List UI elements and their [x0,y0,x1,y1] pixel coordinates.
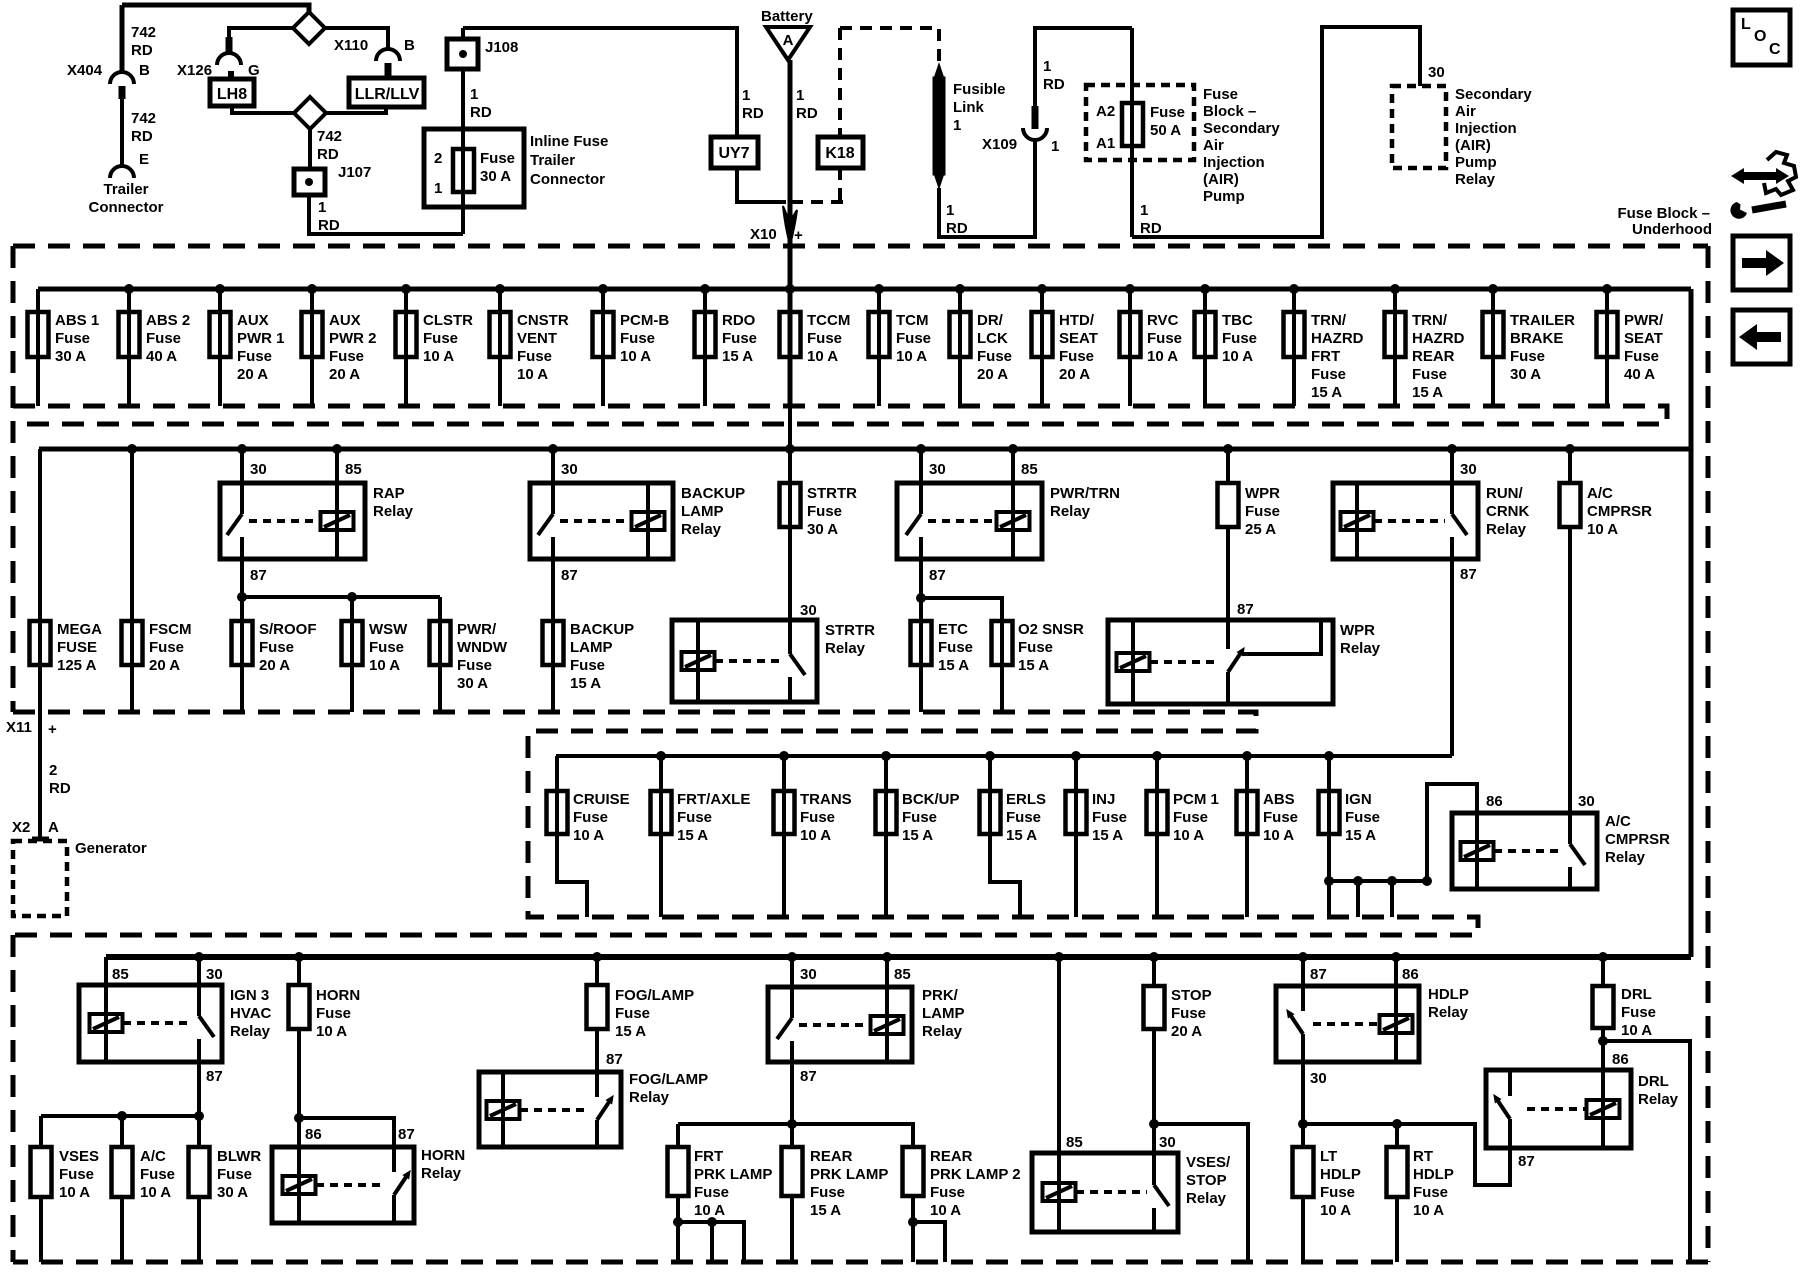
connector B [376,49,400,61]
svg-text:PWR/: PWR/ [1624,312,1664,329]
wire through inline fuse [461,69,465,234]
svg-text:A/C: A/C [1605,813,1631,830]
svg-text:87: 87 [1237,601,1254,618]
wire X109 up and over to AIR fuse [1035,28,1132,108]
svg-text:Fuse: Fuse [1311,366,1346,383]
svg-text:Fuse: Fuse [480,150,515,167]
svg-text:Relay: Relay [681,521,722,538]
icon arrow left box [1733,310,1790,364]
svg-text:(AIR): (AIR) [1203,171,1239,188]
wire top-left horizontal [122,5,309,13]
svg-text:Fuse: Fuse [1222,330,1257,347]
svg-text:Relay: Relay [1186,1190,1227,1207]
svg-text:Underhood: Underhood [1632,221,1712,238]
fuse BCK/UP [884,756,888,834]
wire STOP to VSES/STOP relay [1152,1029,1156,1153]
splice X110 diamond [293,12,325,44]
svg-text:STOP: STOP [1186,1172,1227,1189]
wire REAR PRK 2 outputs [911,1196,915,1262]
wire X110 to B connector [325,28,388,49]
svg-text:MEGA: MEGA [57,621,102,638]
fuse FRT/AXLE [659,756,663,834]
svg-text:BCK/UP: BCK/UP [902,791,960,808]
wire VSES/STOP 85 drop [1057,957,1061,1153]
svg-text:87: 87 [1518,1153,1535,1170]
svg-text:HDLP: HDLP [1428,986,1469,1003]
relay PWR/TRN [919,449,923,483]
svg-text:Fuse Block –: Fuse Block – [1617,205,1710,222]
svg-text:15 A: 15 A [1412,384,1443,401]
svg-text:40 A: 40 A [1624,366,1655,383]
svg-text:Block –: Block – [1203,103,1256,120]
svg-text:10 A: 10 A [1222,348,1253,365]
box fuse block secondary AIR dashed [1086,85,1194,160]
svg-text:PRK LAMP 2: PRK LAMP 2 [930,1166,1021,1183]
svg-text:UY7: UY7 [718,145,749,162]
wire HDLP 30 rail [1301,1062,1305,1147]
svg-text:X404: X404 [67,62,103,79]
wire INJ output [1074,834,1078,917]
fusible link 1 [933,62,945,80]
svg-text:Fuse: Fuse [1412,366,1447,383]
svg-text:PWR 1: PWR 1 [237,330,285,347]
wire ERLS output dogleg [990,834,1020,917]
svg-text:B: B [404,37,415,54]
relay HORN [272,1147,414,1223]
svg-text:30: 30 [800,602,817,619]
wire X404 to E [120,99,124,166]
svg-text:LH8: LH8 [217,86,247,103]
svg-text:30 A: 30 A [480,168,511,185]
wire IGN output manifold [1327,834,1331,917]
svg-text:Fuse: Fuse [217,1166,252,1183]
fuse LT HDLP [1293,1147,1314,1197]
svg-text:BLWR: BLWR [217,1148,261,1165]
fuse RT HDLP [1395,1124,1399,1147]
wire FRT PRK outputs [676,1196,680,1262]
svg-text:1: 1 [1051,138,1059,155]
svg-text:Fuse: Fuse [1173,809,1208,826]
svg-text:Fuse: Fuse [620,330,655,347]
svg-text:TRANS: TRANS [800,791,852,808]
svg-text:Relay: Relay [1486,521,1527,538]
svg-text:DRL: DRL [1621,986,1652,1003]
svg-text:PRK LAMP: PRK LAMP [810,1166,888,1183]
fuse VSES [39,1116,43,1147]
svg-text:87: 87 [250,567,267,584]
svg-text:87: 87 [929,567,946,584]
fuse O2 SNSR [1000,621,1004,712]
svg-text:Trailer: Trailer [103,181,148,198]
svg-text:FRT/AXLE: FRT/AXLE [677,791,750,808]
relay PRK/LAMP [790,957,794,987]
svg-text:ABS: ABS [1263,791,1295,808]
svg-text:RD: RD [470,104,492,121]
wire FRT/AXLE output [659,834,663,917]
svg-text:Relay: Relay [230,1023,271,1040]
svg-text:87: 87 [398,1126,415,1143]
svg-text:85: 85 [112,966,129,983]
svg-text:S/ROOF: S/ROOF [259,621,317,638]
svg-text:HTD/: HTD/ [1059,312,1095,329]
wire PRK 87 rail [790,1062,794,1147]
svg-text:A/C: A/C [1587,485,1613,502]
svg-text:40 A: 40 A [146,348,177,365]
svg-text:Fuse: Fuse [146,330,181,347]
svg-text:Air: Air [1455,103,1476,120]
fuse Inline 30A [453,149,474,192]
svg-text:25 A: 25 A [1245,521,1276,538]
svg-text:30 A: 30 A [1510,366,1541,383]
svg-text:BACKUP: BACKUP [681,485,745,502]
svg-text:WNDW: WNDW [457,639,508,656]
svg-text:30: 30 [561,461,578,478]
fuse AUX PWR 1 [218,289,222,406]
fuse PCM 1 [1155,756,1159,834]
svg-text:30 A: 30 A [807,521,838,538]
svg-text:RUN/: RUN/ [1486,485,1523,502]
svg-text:X10: X10 [750,226,777,243]
svg-text:WPR: WPR [1245,485,1280,502]
svg-text:Pump: Pump [1455,154,1497,171]
svg-text:X11: X11 [6,719,32,736]
icon LOC box [1733,10,1790,65]
fuse PWR/WNDW [438,597,442,712]
svg-text:Relay: Relay [1455,171,1496,188]
svg-text:Fuse: Fuse [1413,1184,1448,1201]
svg-text:10 A: 10 A [1147,348,1178,365]
svg-text:30: 30 [800,966,817,983]
box inline fuse trailer connector [424,129,524,207]
svg-text:Fuse: Fuse [423,330,458,347]
svg-text:30 A: 30 A [55,348,86,365]
svg-text:DRL: DRL [1638,1073,1669,1090]
svg-text:Relay: Relay [373,503,414,520]
fuse BACKUP LAMP [551,621,555,712]
svg-text:10 A: 10 A [930,1202,961,1219]
svg-text:SEAT: SEAT [1624,330,1663,347]
fuse PCM-B [601,289,605,406]
svg-text:PWR 2: PWR 2 [329,330,377,347]
svg-text:Connector: Connector [89,199,164,216]
box LLR/LLV [349,78,424,107]
fuse RVC [1128,289,1132,406]
svg-text:1: 1 [1140,202,1148,219]
svg-text:86: 86 [1612,1051,1629,1068]
svg-text:E: E [139,151,149,168]
svg-text:50 A: 50 A [1150,122,1181,139]
svg-text:X126: X126 [177,62,212,79]
svg-text:30: 30 [1460,461,1477,478]
svg-text:HAZRD: HAZRD [1412,330,1465,347]
svg-text:Relay: Relay [1050,503,1091,520]
svg-text:2: 2 [434,150,442,167]
fuse ERLS [988,756,992,834]
svg-text:PRK/: PRK/ [922,987,959,1004]
wire through AIR fuse block [1130,28,1134,237]
svg-text:Secondary: Secondary [1203,120,1280,137]
relay HDLP [1301,957,1305,986]
fuse REAR PRK LAMP [790,1124,794,1147]
svg-text:FSCM: FSCM [149,621,192,638]
svg-text:RD: RD [946,220,968,237]
svg-text:FUSE: FUSE [57,639,97,656]
svg-text:G: G [248,62,260,79]
svg-text:ETC: ETC [938,621,968,638]
fuse STOP [1152,957,1156,986]
svg-text:10 A: 10 A [1320,1202,1351,1219]
svg-text:10 A: 10 A [1621,1022,1652,1039]
svg-text:85: 85 [894,966,911,983]
svg-text:1: 1 [953,117,961,134]
svg-text:Fuse: Fuse [149,639,184,656]
svg-text:LLR/LLV: LLR/LLV [355,86,420,103]
svg-text:1: 1 [434,180,442,197]
fuse PWR/SEAT [1605,289,1609,406]
wire A/C relay 86 jog [1427,784,1477,881]
svg-text:REAR: REAR [1412,348,1455,365]
fuse DR/LCK [958,289,962,406]
svg-text:RD: RD [1043,76,1065,93]
svg-text:REAR: REAR [930,1148,973,1165]
fuse HTD/SEAT [1040,289,1044,406]
svg-text:RDO: RDO [722,312,756,329]
svg-text:20 A: 20 A [1059,366,1090,383]
svg-text:TRAILER: TRAILER [1510,312,1575,329]
svg-text:10 A: 10 A [1173,827,1204,844]
svg-text:PWR/: PWR/ [457,621,497,638]
svg-text:10 A: 10 A [316,1023,347,1040]
svg-text:+: + [794,227,803,244]
svg-text:RT: RT [1413,1148,1433,1165]
fuse TRN/HAZRD FRT [1292,289,1296,406]
svg-text:ERLS: ERLS [1006,791,1046,808]
wire HORN fuse to relay [297,1029,301,1147]
svg-text:TRN/: TRN/ [1412,312,1448,329]
svg-text:15 A: 15 A [1311,384,1342,401]
relay VSES/STOP [1032,1153,1178,1232]
relay RAP [240,449,244,483]
divider section2 and inner box dashed [13,712,1478,935]
fuse block underhood dashed border [13,244,1708,249]
svg-text:ABS 2: ABS 2 [146,312,190,329]
svg-text:15 A: 15 A [677,827,708,844]
svg-text:K18: K18 [825,145,854,162]
fuse ETC [919,621,923,712]
svg-text:HDLP: HDLP [1413,1166,1454,1183]
svg-text:Fuse: Fuse [1150,104,1185,121]
svg-text:AUX: AUX [329,312,361,329]
fuse TCCM [788,312,793,406]
wire PWR/TRN 87 rail [919,559,923,621]
fuse HORN [297,957,301,985]
svg-text:IGN 3: IGN 3 [230,987,269,1004]
svg-text:Fuse: Fuse [1624,348,1659,365]
fuse CNSTR VENT [498,289,502,406]
svg-text:Fuse: Fuse [369,639,404,656]
svg-text:Fuse: Fuse [1263,809,1298,826]
svg-text:FOG/LAMP: FOG/LAMP [615,987,694,1004]
svg-text:VSES: VSES [59,1148,99,1165]
svg-text:CMPRSR: CMPRSR [1587,503,1652,520]
svg-text:Secondary: Secondary [1455,86,1532,103]
svg-text:Relay: Relay [1340,640,1381,657]
svg-text:20 A: 20 A [1171,1023,1202,1040]
svg-text:RD: RD [742,105,764,122]
svg-text:RD: RD [131,128,153,145]
svg-text:PCM-B: PCM-B [620,312,669,329]
svg-text:Relay: Relay [1605,849,1646,866]
fuse A/C CMPRSR [1568,449,1572,483]
svg-text:HAZRD: HAZRD [1311,330,1364,347]
relay RUN/CRNK [1450,449,1454,483]
svg-text:CNSTR: CNSTR [517,312,569,329]
svg-text:Fuse: Fuse [930,1184,965,1201]
svg-text:A2: A2 [1096,103,1115,120]
svg-text:Fuse: Fuse [615,1005,650,1022]
battery triangle A [766,27,810,60]
fuse TRANS [782,756,786,834]
svg-text:L: L [1741,16,1751,33]
svg-text:LAMP: LAMP [681,503,724,520]
wire DRL fuse outputs [1601,1028,1605,1070]
svg-text:15 A: 15 A [902,827,933,844]
svg-text:30: 30 [929,461,946,478]
svg-text:20 A: 20 A [977,366,1008,383]
svg-text:Relay: Relay [421,1165,462,1182]
svg-text:TCCM: TCCM [807,312,850,329]
svg-text:A: A [783,32,794,49]
fuse A/C small [120,1116,124,1147]
svg-text:30: 30 [206,966,223,983]
wire battery feed [788,60,793,312]
svg-text:Fuse: Fuse [1510,348,1545,365]
box generator dashed [13,841,67,916]
svg-text:Injection: Injection [1455,120,1517,137]
wire LLR/LLV to splice [325,107,386,113]
svg-text:Fuse: Fuse [694,1184,729,1201]
bus3 wire [556,754,1452,758]
svg-text:Fusible: Fusible [953,81,1006,98]
svg-text:Fuse: Fuse [573,809,608,826]
svg-text:+: + [48,721,57,738]
fuse FRT PRK LAMP [668,1147,689,1196]
svg-text:BRAKE: BRAKE [1510,330,1563,347]
svg-text:20 A: 20 A [149,657,180,674]
svg-text:PWR/TRN: PWR/TRN [1050,485,1120,502]
svg-text:125 A: 125 A [57,657,97,674]
svg-text:Fuse: Fuse [896,330,931,347]
svg-text:HORN: HORN [421,1147,465,1164]
svg-text:86: 86 [305,1126,322,1143]
svg-text:87: 87 [561,567,578,584]
svg-text:742: 742 [131,24,156,41]
fuse FOG/LAMP [595,957,599,985]
svg-text:10 A: 10 A [573,827,604,844]
wire J108 top run to UY7 [463,28,737,137]
svg-text:10 A: 10 A [517,366,548,383]
fuse INJ [1074,756,1078,834]
svg-text:30: 30 [1159,1134,1176,1151]
wire A/C fuse to relay [1568,527,1572,813]
svg-text:87: 87 [1310,966,1327,983]
svg-text:Fuse: Fuse [457,657,492,674]
connector X109 [1023,128,1047,140]
svg-text:Inline Fuse: Inline Fuse [530,133,608,150]
wire J107 to inline fuse [309,195,463,234]
svg-text:742: 742 [317,128,342,145]
relay FOG/LAMP [479,1072,621,1147]
fuse WPR [1226,449,1230,483]
svg-text:VSES/: VSES/ [1186,1154,1231,1171]
svg-text:J107: J107 [338,164,371,181]
svg-text:Relay: Relay [1428,1004,1469,1021]
svg-text:Fuse: Fuse [517,348,552,365]
svg-text:Fuse: Fuse [1320,1184,1355,1201]
svg-text:10 A: 10 A [896,348,927,365]
svg-text:86: 86 [1402,966,1419,983]
svg-text:RAP: RAP [373,485,405,502]
svg-text:C: C [1769,41,1781,58]
svg-text:Generator: Generator [75,840,147,857]
svg-text:30: 30 [1428,64,1445,81]
wire BACKUP 87 [551,559,555,621]
wire BCK/UP output [884,834,888,917]
svg-text:10 A: 10 A [1587,521,1618,538]
wire RUN/CRNK 87 to bus3 [1450,559,1454,756]
svg-text:1: 1 [796,87,804,104]
svg-text:RD: RD [131,42,153,59]
relay A/C CMPRSR [1452,813,1597,889]
arrow X10 [783,206,797,245]
svg-text:CRUISE: CRUISE [573,791,630,808]
box secondary AIR pump relay dashed [1392,86,1446,168]
svg-text:Fuse: Fuse [1059,348,1094,365]
svg-text:10 A: 10 A [59,1184,90,1201]
svg-text:LAMP: LAMP [922,1005,965,1022]
svg-text:87: 87 [800,1068,817,1085]
svg-text:Fuse: Fuse [1245,503,1280,520]
fuse DRL [1601,957,1605,986]
svg-text:15 A: 15 A [1345,827,1376,844]
svg-text:A1: A1 [1096,135,1115,152]
svg-text:10 A: 10 A [369,657,400,674]
svg-text:CMPRSR: CMPRSR [1605,831,1670,848]
svg-text:Fuse: Fuse [55,330,90,347]
fuse CRUISE [555,756,559,834]
svg-text:Fuse: Fuse [140,1166,175,1183]
svg-text:Fuse: Fuse [1203,86,1238,103]
bus2 wire [39,447,1691,452]
svg-text:B: B [139,62,150,79]
divider section1 dashed [13,406,1667,424]
svg-text:87: 87 [606,1051,623,1068]
svg-text:30: 30 [250,461,267,478]
svg-text:10 A: 10 A [140,1184,171,1201]
fuse TBC [1203,289,1207,406]
svg-text:BACKUP: BACKUP [570,621,634,638]
svg-text:CRNK: CRNK [1486,503,1529,520]
wire FOG fuse to relay [595,1029,599,1072]
wire X404 drop [120,5,125,72]
svg-text:87: 87 [1460,566,1477,583]
svg-text:10 A: 10 A [694,1202,725,1219]
svg-text:Relay: Relay [1638,1091,1679,1108]
svg-text:STRTR: STRTR [807,485,857,502]
svg-text:J108: J108 [485,39,518,56]
svg-text:2: 2 [49,762,57,779]
svg-text:IGN: IGN [1345,791,1372,808]
